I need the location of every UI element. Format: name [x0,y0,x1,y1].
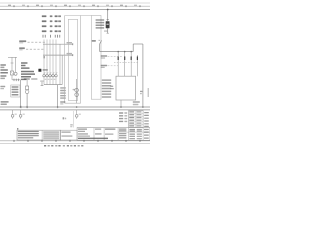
wire drop b [15,57,17,72]
bus label mid [60,101,65,103]
phase wires to switch F1 [43,40,45,75]
footer second line [0,142,150,144]
cable spec label [60,87,66,88]
switch F1 contacts [44,72,46,74]
label cable [101,65,107,67]
wire cross-reference labels [42,15,47,17]
labels below T1 [0,75,6,77]
bus wire N [43,43,73,45]
bus junctions [20,106,22,108]
bus label left [1,101,9,103]
enclosure U1 right edge [80,16,82,104]
bus N bottom [0,106,150,108]
contact pin labels [45,79,47,80]
wire to right [100,51,134,53]
bus L1 (top horizontal wire) [0,9,150,11]
cable wire down [57,85,59,107]
ruler line with ticks [0,5,150,7]
duct B [91,16,101,100]
pe symbol [41,82,43,86]
wire top right [133,43,143,45]
node 1 mark [43,56,45,58]
sheet reference column [144,112,149,113]
box mark left [110,86,113,87]
enclosure U1 left edge [64,16,66,104]
switch Q1 [99,44,101,52]
column number row [8,5,11,6]
footer ruler line [0,140,150,142]
motor feeds below bus [12,110,14,115]
bus ticks [20,106,22,108]
bus wire PE [43,54,73,56]
transformer T1 [10,71,13,75]
label screw fuse [101,55,107,57]
approval stamp [43,131,60,140]
panel tag [70,124,73,125]
wire drop a [11,57,13,71]
distribution box X5 [116,76,136,100]
border top line [0,2,150,4]
device list labels [102,79,111,81]
socket X2 outlet [75,88,79,92]
enclosure U1 bottom edge [65,102,81,104]
component description text [21,62,28,64]
fuses F2-F5 [118,56,119,60]
contactor K1 coil [38,69,41,72]
wire riser [132,44,134,52]
wire from bus N [59,44,61,84]
meter Z1 (dark) [107,19,109,21]
bus label right [133,101,140,103]
meter labels [96,19,105,21]
cable collector [44,84,62,86]
enclosure U1 top edge [65,15,92,17]
supply drop wire [107,10,109,22]
title block left cells [17,130,61,140]
box outlet wire [120,100,122,107]
title block main cells [77,128,150,141]
fuse wires [117,52,119,77]
wire right drop [142,44,144,107]
duct A [68,19,77,100]
approval labels [119,112,123,113]
label Grp with leader [19,40,26,42]
wire down to bus left [20,80,22,107]
meter tail wire [107,28,109,33]
phase dashed link [114,62,139,64]
labels left of T1 [0,64,6,66]
terminal row labels [24,78,30,80]
panel boundary line [73,111,75,128]
terminal row X1 [11,75,13,80]
device tag box [11,85,20,97]
wire stubs below labels [42,35,44,38]
mark above title block [17,128,18,130]
tick on wire [11,62,14,64]
title block mid cell [61,130,78,140]
right margin note [148,88,149,97]
bus PE bottom [0,109,150,111]
label 13 [92,40,96,42]
revision table [129,111,144,128]
footer navigation text [44,145,46,147]
heater E1 [26,80,28,86]
wire top left circuit [8,56,17,58]
wire from bus PE [61,55,63,85]
riser labels [63,117,65,119]
socket wire [76,79,78,103]
box mark right [140,91,142,92]
cable tail mark [57,107,59,108]
label Bw with leader [19,47,25,49]
